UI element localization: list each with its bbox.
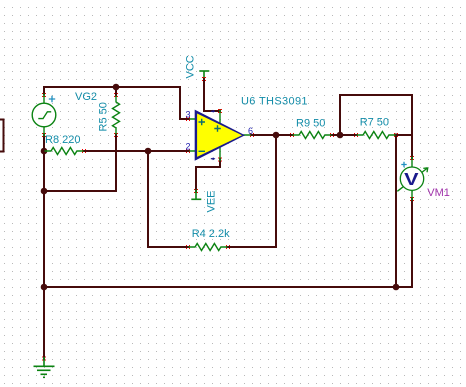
svg-text:U6 THS3091: U6 THS3091 — [241, 96, 308, 108]
svg-text:6: 6 — [248, 126, 253, 136]
svg-text:VM1: VM1 — [427, 187, 450, 199]
svg-text:3: 3 — [185, 110, 190, 120]
svg-text:R4 2.2k: R4 2.2k — [192, 228, 230, 240]
svg-text:R9 50: R9 50 — [296, 117, 325, 129]
svg-text:V: V — [404, 170, 419, 190]
svg-text:VEE: VEE — [206, 190, 218, 212]
svg-text:R8 220: R8 220 — [45, 134, 80, 146]
svg-text:VCC: VCC — [184, 55, 196, 78]
svg-text:2: 2 — [185, 142, 190, 152]
svg-text:R5 50: R5 50 — [98, 102, 110, 131]
svg-text:R7 50: R7 50 — [360, 117, 389, 129]
svg-text:VG2: VG2 — [75, 91, 97, 103]
